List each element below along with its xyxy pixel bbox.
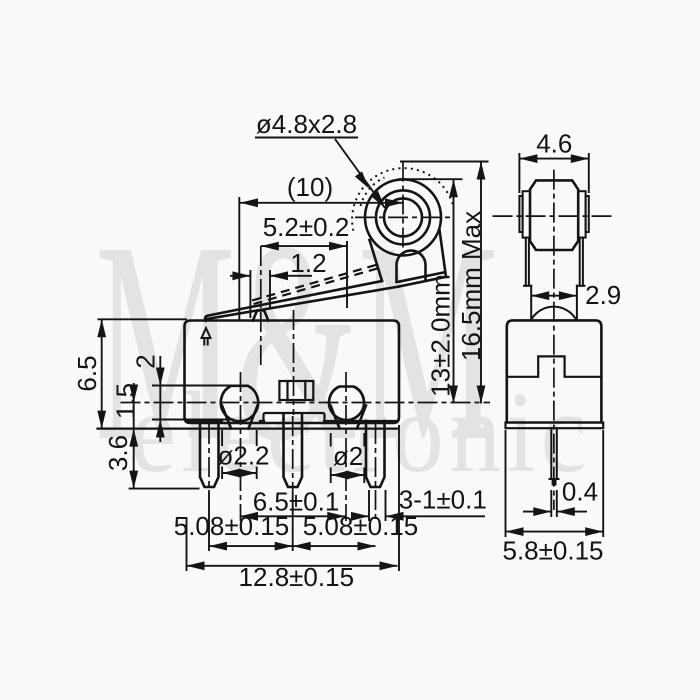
roller phantom dotted arc inner [361, 178, 385, 207]
lever dashed alternate position [252, 264, 383, 305]
side plate left outer [519, 196, 522, 232]
dimension arrowheads [97, 154, 603, 570]
dim 3-1±0.1 [353, 425, 485, 571]
svg-text:12.8±0.15: 12.8±0.15 [239, 562, 354, 592]
side view vertical centerline [553, 170, 555, 510]
dim (10) [239, 197, 403, 320]
dim 4.6 [519, 153, 588, 193]
svg-text:13±2.0mm: 13±2.0mm [426, 274, 456, 397]
switch body front view [185, 321, 400, 424]
right hole vertical centerline [345, 372, 347, 521]
lever bracket bottom and right edge [399, 230, 447, 287]
svg-text:1.2: 1.2 [290, 248, 326, 278]
roller phantom dotted arc outer [352, 168, 453, 231]
mounting hole left (flat top) [221, 386, 258, 421]
dim 2.9 [531, 295, 577, 297]
side view roller (octagon) [530, 180, 578, 250]
lever arm lower edge [207, 287, 399, 319]
fork shoulders [524, 285, 585, 287]
boss under right hole [331, 406, 367, 429]
svg-text:5.08±0.15: 5.08±0.15 [303, 511, 418, 541]
plunger dome [532, 307, 576, 319]
svg-text:ø2.2: ø2.2 [217, 441, 269, 471]
left pin centerline [208, 424, 210, 492]
svg-text:0.4: 0.4 [562, 477, 598, 507]
roller axle hole [384, 198, 422, 236]
plunger bump [253, 311, 268, 321]
D-shaped cutout in bracket [397, 251, 426, 282]
svg-text:3.6: 3.6 [103, 435, 133, 471]
left hole vertical centerline [240, 372, 242, 521]
dimension lines and extension lines [98, 138, 604, 572]
lever arm upper edge [205, 281, 382, 321]
dim ø2 [331, 433, 365, 483]
body base plate line top [186, 420, 398, 422]
boss under left hole [222, 406, 258, 429]
terminal pin right [366, 421, 385, 487]
roller vertical centerline [402, 162, 404, 249]
side view pin [550, 428, 559, 484]
dim 16.5mm Max [400, 162, 489, 404]
channel between bosses [264, 413, 325, 421]
svg-text:5.08±0.15: 5.08±0.15 [174, 511, 289, 541]
svg-text:2: 2 [131, 354, 161, 368]
middle pin centerline [292, 416, 294, 492]
dim 6.5 left [98, 319, 188, 428]
svg-text:2.9: 2.9 [585, 280, 621, 310]
svg-text:16.5mm Max: 16.5mm Max [456, 211, 486, 361]
roller hub circle [376, 190, 430, 244]
svg-text:(10): (10) [287, 172, 333, 202]
center window inner lines [288, 381, 306, 400]
roller outer circle [365, 179, 441, 255]
side plate right outer [586, 196, 589, 232]
side view internal step line [507, 356, 602, 376]
svg-text:ø2: ø2 [333, 441, 363, 471]
dim ø2.2 [222, 430, 257, 479]
terminal pin middle [284, 414, 303, 487]
dim 1.2 [230, 270, 312, 318]
plunger centerline [260, 246, 262, 368]
dim 12.8±0.15 [187, 517, 398, 571]
side view base plate [506, 423, 604, 429]
svg-text:5.2±0.2: 5.2±0.2 [263, 212, 350, 242]
dim 3.6 left [129, 403, 200, 489]
side plate right inner [578, 191, 585, 237]
terminal pin left [200, 421, 219, 487]
dim 0.4 [523, 490, 587, 517]
hole center horizontal reference line [121, 402, 491, 404]
side view body [507, 320, 602, 422]
dim 1.5 left [133, 383, 135, 403]
right pin centerline [375, 424, 377, 521]
svg-text:ø4.8x2.8: ø4.8x2.8 [256, 109, 357, 139]
side view roller horizontal centerline [493, 215, 614, 217]
direction arrow symbol inside body [202, 328, 211, 345]
dim 6.5±0.1 [240, 515, 345, 517]
centerlines [121, 162, 614, 522]
dimension texts [72, 109, 621, 592]
lever fork sides [526, 238, 583, 286]
roller horizontal centerline [355, 216, 452, 218]
svg-text:1.5: 1.5 [111, 383, 141, 419]
dim 5.08±0.15 first [209, 492, 376, 551]
svg-text:5.8±0.15: 5.8±0.15 [502, 536, 603, 566]
body base plate line bottom [98, 428, 399, 430]
dim 5.8±0.15 [506, 430, 604, 537]
dim 2 left [152, 356, 240, 442]
dim 13±2.0mm [398, 179, 463, 403]
leader ø4.8x2.8 [255, 138, 385, 209]
center window rect [279, 381, 313, 400]
lever bracket left edge [370, 240, 383, 281]
mounting hole right (flat top) [329, 387, 364, 420]
svg-text:6.5: 6.5 [72, 355, 102, 391]
svg-text:4.6: 4.6 [536, 129, 572, 159]
plunger sides side view [531, 286, 577, 321]
dim 5.2±0.2 [261, 241, 347, 308]
body centerline front [293, 310, 295, 415]
side plate left inner [523, 191, 530, 237]
